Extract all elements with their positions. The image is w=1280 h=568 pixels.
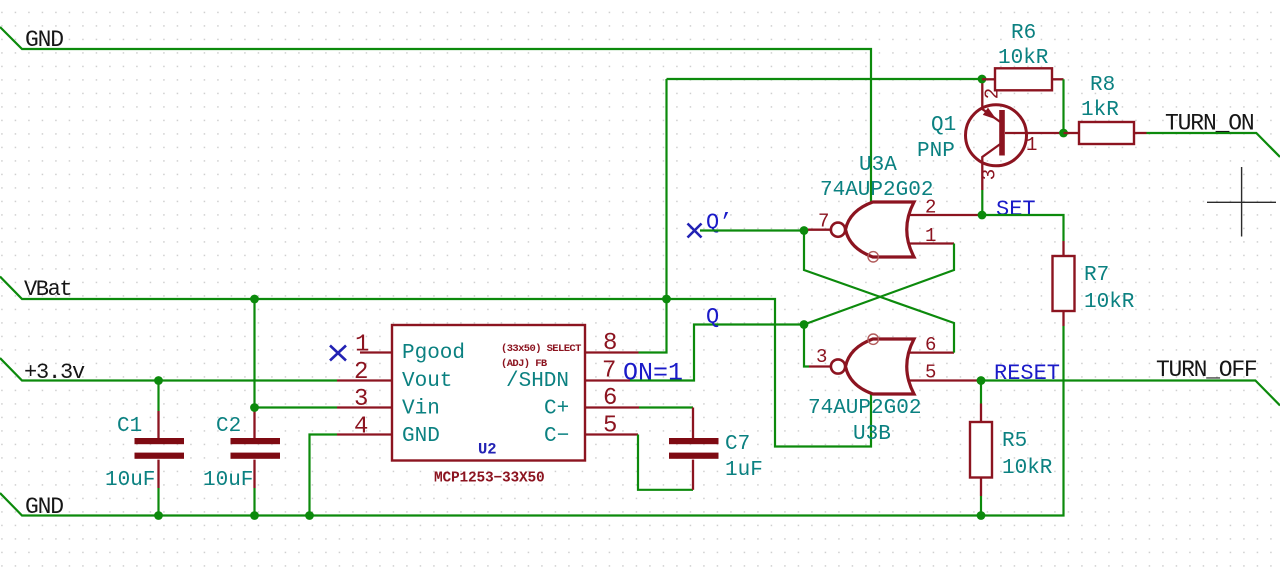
svg-text:SET: SET — [996, 197, 1036, 222]
resistor R8 — [1064, 74, 1147, 144]
junction VBat/C2 — [250, 295, 259, 304]
svg-text:C7: C7 — [725, 433, 750, 456]
junction node Q' — [800, 226, 809, 235]
wire Q' to U3A output — [700, 229, 804, 231]
wire pin5 to C7 bottom — [638, 435, 693, 490]
capacitor C7 — [669, 408, 763, 490]
junction GND/R5 — [977, 511, 986, 520]
label Q' — [706, 210, 732, 235]
junction VBat/R6/Q1 — [978, 75, 987, 84]
svg-text:(33x50) SELECT: (33x50) SELECT — [501, 343, 581, 355]
wire +3.3v rail — [0, 358, 337, 381]
wire Vin — [255, 406, 338, 408]
wire TURN_ON — [1147, 133, 1280, 157]
svg-text:U3B: U3B — [853, 423, 891, 446]
wire R6 to base node — [1062, 79, 1064, 133]
junction node SET — [978, 211, 987, 220]
svg-text:VBat: VBat — [24, 277, 71, 302]
pin 2 Vout — [337, 359, 392, 386]
svg-text:GND: GND — [25, 494, 63, 520]
U3A pin 2 (input from SET) — [909, 197, 982, 219]
svg-text:R8: R8 — [1090, 74, 1115, 97]
label +3.3v — [24, 360, 85, 385]
wire pin7 to Q node — [630, 325, 804, 381]
svg-text:7: 7 — [818, 211, 829, 233]
svg-text:10kR: 10kR — [1002, 457, 1053, 480]
svg-text:(ADJ) FB: (ADJ) FB — [501, 358, 548, 370]
wire cross-couple Q' to U3B pin6 — [804, 231, 954, 353]
junction GND/C1 — [154, 511, 163, 520]
wire GND bottom rail — [0, 326, 1064, 516]
junction node Q — [800, 320, 809, 329]
label VBat — [24, 277, 71, 302]
junction VBat/pin8 riser — [662, 295, 671, 304]
svg-text:10uF: 10uF — [203, 469, 253, 492]
svg-text:Pgood: Pgood — [402, 342, 465, 365]
junction GND/C2 — [250, 511, 259, 520]
cursor crosshair — [1207, 167, 1276, 237]
label ON=1 — [623, 359, 683, 388]
junction R6/R8/base — [1059, 129, 1068, 138]
svg-text:C2: C2 — [216, 415, 241, 438]
junction +3.3v/C1 — [154, 376, 163, 385]
U3A pin 7 (output) — [808, 211, 831, 233]
svg-text:6: 6 — [925, 334, 936, 356]
svg-text:+3.3v: +3.3v — [24, 360, 85, 385]
svg-text:7: 7 — [602, 358, 616, 385]
wire Q node to U3B output — [804, 325, 809, 367]
svg-text:3: 3 — [979, 169, 1001, 180]
pin 1 Pgood — [355, 332, 392, 359]
wire GND top rail — [0, 27, 871, 202]
pin 7 /SHDN — [585, 358, 630, 385]
svg-text:/SHDN: /SHDN — [506, 370, 569, 393]
wire pin8 to VBat riser — [639, 79, 667, 353]
resistor R5 — [970, 381, 1053, 516]
resistor R7 — [1053, 241, 1135, 326]
pin 3 Vin — [337, 386, 392, 413]
svg-text:C1: C1 — [117, 415, 142, 438]
svg-text:74AUP2G02: 74AUP2G02 — [820, 179, 933, 202]
svg-text:5: 5 — [925, 362, 936, 384]
wire VBat rail — [0, 277, 871, 447]
svg-text:RESET: RESET — [994, 361, 1060, 386]
wire Q1 collector to SET — [981, 190, 983, 215]
svg-text:PNP: PNP — [917, 140, 955, 163]
capacitor C1 — [105, 381, 184, 516]
svg-text:U3A: U3A — [859, 154, 897, 177]
svg-text:MCP1253−33X50: MCP1253−33X50 — [434, 471, 545, 487]
svg-text:R7: R7 — [1084, 264, 1109, 287]
svg-text:C−: C− — [544, 425, 569, 448]
label RESET — [994, 361, 1060, 386]
U3B pin 5 (input from RESET) — [909, 362, 981, 384]
svg-text:TURN_ON: TURN_ON — [1165, 111, 1254, 137]
svg-text:Vout: Vout — [402, 370, 452, 393]
svg-text:2: 2 — [925, 197, 936, 219]
no-connect X on pin 1 — [330, 346, 346, 361]
wire SET to R7 — [982, 215, 1064, 241]
junction C2/Vin — [250, 403, 259, 412]
svg-text:1uF: 1uF — [725, 459, 763, 482]
U3A pin 1 (input cross-coupled) — [909, 225, 954, 247]
capacitor C2 — [203, 299, 280, 516]
svg-text:1: 1 — [925, 225, 936, 247]
IC U2 MCP1253 body — [392, 325, 585, 487]
transistor Q1 PNP — [917, 79, 1064, 190]
svg-text:74AUP2G02: 74AUP2G02 — [808, 397, 921, 420]
label TURN_OFF — [1156, 357, 1257, 383]
svg-text:10kR: 10kR — [1084, 291, 1135, 314]
svg-text:4: 4 — [354, 414, 368, 441]
svg-text:10uF: 10uF — [105, 469, 155, 492]
label GND (bottom) — [25, 494, 63, 520]
junction node RESET — [977, 376, 986, 385]
svg-text:8: 8 — [603, 330, 617, 357]
svg-text:6: 6 — [603, 385, 617, 412]
wire RESET / TURN_OFF — [981, 381, 1280, 406]
svg-text:R5: R5 — [1002, 430, 1027, 453]
svg-text:3: 3 — [816, 346, 827, 368]
svg-text:Q1: Q1 — [931, 114, 956, 137]
label SET — [996, 197, 1036, 222]
wire U2 GND pin4 — [310, 435, 338, 516]
svg-text:1kR: 1kR — [1081, 99, 1119, 122]
svg-text:Q: Q — [706, 305, 719, 330]
wire VBat top rail to R6 — [667, 78, 983, 80]
svg-text:Vin: Vin — [402, 398, 440, 421]
svg-text:GND: GND — [25, 27, 63, 53]
svg-text:1: 1 — [355, 332, 369, 359]
svg-text:R6: R6 — [1011, 22, 1036, 45]
svg-text:3: 3 — [354, 386, 368, 413]
svg-text:C+: C+ — [544, 398, 569, 421]
pin 8 — [585, 330, 639, 357]
pin 4 GND — [337, 414, 392, 441]
wire cross-couple U3A pin1 to Q — [804, 244, 954, 325]
svg-text:U2: U2 — [478, 441, 497, 459]
label Q — [706, 305, 719, 330]
no-connect X on Q' wire — [688, 224, 702, 238]
svg-text:ON=1: ON=1 — [623, 359, 683, 388]
label TURN_ON — [1165, 111, 1254, 137]
U3B pin 3 (output) — [809, 346, 831, 368]
svg-text:10kR: 10kR — [998, 47, 1049, 70]
svg-text:5: 5 — [603, 413, 617, 440]
svg-text:1: 1 — [1026, 134, 1037, 156]
svg-text:TURN_OFF: TURN_OFF — [1156, 357, 1257, 383]
pin 6 C+ — [585, 385, 639, 412]
svg-text:GND: GND — [402, 425, 440, 448]
nor-gate U3B 74AUP2G02 — [808, 334, 921, 446]
U3B pin 6 (input cross-coupled) — [909, 334, 954, 356]
nor-gate U3A 74AUP2G02 — [820, 154, 933, 262]
junction GND/U2 pin4 — [305, 511, 314, 520]
label GND (top) — [25, 27, 63, 53]
wire pin6 to C7 top — [639, 406, 693, 408]
pin 5 C- — [585, 413, 638, 440]
resistor R6 — [982, 22, 1064, 90]
svg-text:2: 2 — [354, 359, 368, 386]
